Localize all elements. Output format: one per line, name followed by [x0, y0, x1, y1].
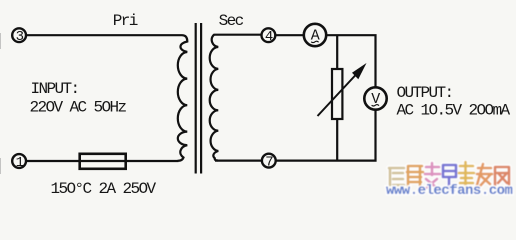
- voltmeter V (meter): [364, 87, 386, 109]
- terminal 1: [12, 154, 26, 171]
- ammeter A (meter): [304, 24, 326, 46]
- terminal 4: [262, 28, 276, 45]
- svg-text:INPUT:: INPUT:: [31, 80, 79, 98]
- wire: terminal 1 through fuse to primary winding (bottom left): [26, 160, 178, 162]
- svg-text:7: 7: [265, 155, 273, 171]
- svg-text:www.elecfans.com: www.elecfans.com: [386, 183, 513, 199]
- svg-text:Sec: Sec: [219, 12, 244, 30]
- transformer primary winding: [178, 35, 188, 161]
- wire: secondary top to terminal 4: [214, 34, 262, 36]
- svg-text:4: 4: [265, 29, 273, 45]
- rheostat R (adjustable resistor) body: [332, 69, 342, 119]
- svg-text:Pri: Pri: [113, 12, 138, 30]
- watermark: colorful logo glyphs: [386, 162, 513, 199]
- OUTPUT label: [397, 84, 511, 120]
- wire: terminal 4 to ammeter: [275, 34, 303, 36]
- terminal 3: [12, 28, 26, 45]
- wire: terminal 7 to secondary bottom: [215, 160, 262, 162]
- svg-text:3: 3: [16, 29, 24, 45]
- wire: terminal 3 to primary winding (top left): [26, 34, 182, 36]
- svg-text:22OV AC 5OHz: 22OV AC 5OHz: [30, 99, 127, 117]
- transformer core line 2: [200, 23, 202, 174]
- transformer core line 1: [195, 23, 197, 174]
- transformer secondary winding: [210, 35, 219, 161]
- terminal 7: [262, 154, 276, 171]
- wire: voltmeter to bottom-right corner, left to terminal 7: [276, 110, 376, 161]
- label Sec: [219, 12, 244, 30]
- wire: rheostat top branch: [336, 35, 338, 69]
- fuse F (150C 2A 250V): [80, 154, 126, 169]
- fuse rating label: [51, 180, 157, 198]
- rheostat arrow: [318, 63, 367, 116]
- wire: rheostat bottom branch: [336, 119, 338, 161]
- wire: ammeter to top-right corner, down to voltmeter: [326, 35, 375, 87]
- svg-text:15O°C 2A 25OV: 15O°C 2A 25OV: [51, 180, 157, 198]
- svg-text:1: 1: [16, 155, 24, 171]
- label Pri: [113, 12, 138, 30]
- svg-text:AC 1O.5V 2OOmA: AC 1O.5V 2OOmA: [397, 102, 511, 120]
- svg-text:OUTPUT:: OUTPUT:: [397, 84, 453, 102]
- INPUT label: [30, 80, 127, 117]
